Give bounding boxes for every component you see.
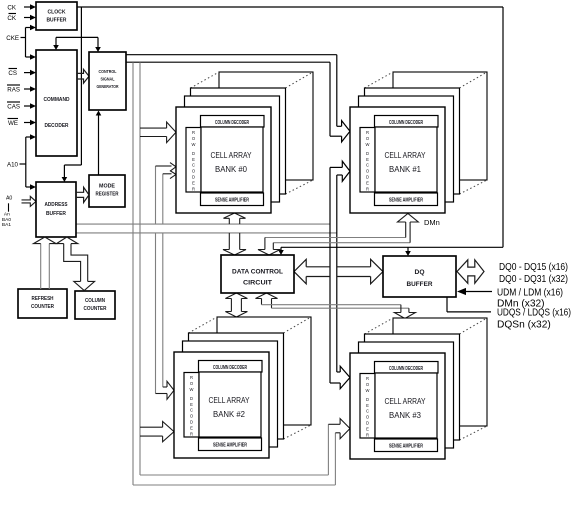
svg-text:COLUMN DECODER: COLUMN DECODER [213,365,247,371]
svg-text:DATA CONTROL: DATA CONTROL [232,269,283,276]
svg-text:CELL ARRAY: CELL ARRAY [385,397,427,406]
svg-text:D: D [366,421,369,426]
svg-text:REFRESH: REFRESH [32,296,54,302]
svg-text:D: D [366,397,369,402]
svg-text:SENSE AMPLIFIER: SENSE AMPLIFIER [389,198,423,204]
svg-text:DQ: DQ [415,269,425,276]
svg-text:E: E [366,426,369,431]
bus arrow up into bank1 bottom (DMn) [405,222,407,238]
svg-text:CK: CK [7,5,16,12]
svg-text:A10: A10 [7,162,19,169]
svg-text:CONTROL: CONTROL [99,69,117,74]
svg-text:W: W [366,142,370,147]
column decoder (bank 3) [375,362,439,374]
bus: DCC bottom to bank3 top [261,299,263,305]
command decoder [36,50,77,156]
svg-text:SENSE AMPLIFIER: SENSE AMPLIFIER [215,198,249,204]
bus: pair down to bank2 upper row arrow [155,233,157,394]
svg-text:SENSE AMPLIFIER: SENSE AMPLIFIER [389,444,423,450]
wire: CSG control line upper (to bank1 row arrows) [126,54,337,56]
hollow arrow address buffer to mode register [76,187,89,202]
svg-text:D: D [366,175,369,180]
svg-text:E: E [190,425,193,430]
wire: clock branch down between command decoder and CSG [80,7,82,165]
bus: data bus from central pair right into DQ buffer [337,266,371,268]
svg-text:E: E [192,180,195,185]
row decoder (bank 3) [360,374,375,439]
bus: address bus from address buffer [76,223,330,225]
svg-text:W: W [190,387,194,392]
svg-text:R: R [366,376,369,381]
svg-text:R: R [190,375,193,380]
wire: column select lines up into bank0 (thin arrows) [155,166,157,224]
svg-text:BUFFER: BUFFER [47,18,67,24]
svg-text:ADDRESS: ADDRESS [45,202,68,208]
cell array bank #3 stacked planes [393,318,487,426]
cell array box (bank 1) [375,127,437,192]
svg-text:E: E [192,157,195,162]
column decoder (bank 2) [199,361,263,373]
svg-text:W: W [366,388,370,393]
svg-text:C: C [192,163,195,168]
bus: central vertical pair upper segment (CSG to bank1) [336,55,338,127]
sense amplifier (bank 2) [199,438,262,451]
bus arrow into bank3 row decoder upper [337,371,340,373]
cell array box (bank 2) [199,372,261,437]
svg-text:REGISTER: REGISTER [96,192,119,198]
svg-text:E: E [366,180,369,185]
column counter [75,291,115,319]
svg-text:E: E [190,402,193,407]
svg-text:MODE: MODE [99,184,115,190]
svg-text:BANK #1: BANK #1 [389,165,421,174]
bus: bank0 sense amp to address-bus (up arrow into bank0 bottom) [228,218,230,224]
svg-text:R: R [192,186,195,191]
svg-text:WE: WE [8,120,18,127]
bus arrow into bank1 row decoder lower [330,166,342,168]
cell array bank #2 stacked planes [217,317,311,425]
svg-text:BANK #3: BANK #3 [389,411,421,420]
svg-text:CKE: CKE [6,35,19,42]
svg-text:CK: CK [7,15,16,22]
wire: internal clock net from clock buffer [77,6,503,8]
bus arrow into bank0 row decoder [140,127,167,129]
zigzag double arrow address buffer to column counter [64,244,81,282]
svg-text:COUNTER: COUNTER [84,306,107,312]
row decoder (bank 0) [186,128,201,193]
svg-text:C: C [190,408,193,413]
refresh counter [18,289,67,318]
svg-text:R: R [192,130,195,135]
cell array box (bank 3) [375,373,437,438]
wire: clock branch into address buffer [64,164,81,166]
sense amplifier (bank 3) [375,439,438,452]
svg-text:CIRCUIT: CIRCUIT [243,280,272,287]
svg-text:C: C [366,163,369,168]
svg-text:COUNTER: COUNTER [31,304,54,310]
row decoder (bank 1) [360,128,375,193]
bus: down arrow into data control circuit (from address bus) [228,233,230,250]
svg-text:BUFFER: BUFFER [407,281,433,288]
mode register [89,175,125,207]
sense amplifier (bank 1) [375,193,438,206]
wire: DQS line from DQ buffer bottom [446,297,448,312]
wire: clock drop into data control circuit [280,247,282,250]
cell array bank #1 stacked planes [393,72,487,180]
bus: DMn write bus between DCC and bank1 bottom [265,237,406,239]
wire: mode register to control signal generator [98,115,100,175]
bus: DCC bottom to bank2 top (double headed) [230,299,232,312]
svg-text:BANK #0: BANK #0 [215,165,248,174]
svg-text:An: An [4,212,10,218]
svg-text:R: R [366,432,369,437]
data control circuit [221,255,294,293]
cell array box (bank 0) [201,127,263,192]
sense amplifier (bank 0) [201,193,264,206]
svg-text:BA0: BA0 [2,217,11,223]
wire: UDM/LDM input into DQ buffer [466,291,492,293]
svg-text:COLUMN DECODER: COLUMN DECODER [215,120,249,126]
bus: data bus from central pair left into data control circuit [306,266,330,268]
svg-text:CAS: CAS [7,104,20,111]
svg-text:CS: CS [8,70,17,77]
svg-text:D: D [190,396,193,401]
bus: DQ bidirectional arrow at DQ buffer right [457,260,484,284]
bus: central vertical pair main segment [329,167,331,383]
column decoder (bank 0) [201,116,265,128]
svg-text:R: R [366,186,369,191]
bus: ring risers into bank3 lower-left arrow [327,424,329,475]
bus: left vertical pair (row address) from CSG line to bottom ring [132,62,134,485]
address buffer [36,182,76,237]
svg-text:COMMAND: COMMAND [44,97,70,103]
svg-text:R: R [366,130,369,135]
svg-text:CELL ARRAY: CELL ARRAY [209,396,251,405]
svg-text:W: W [192,142,196,147]
svg-text:UDM / LDM (x16): UDM / LDM (x16) [497,288,563,299]
cell array bank #0 stacked planes [219,72,313,180]
svg-text:RAS: RAS [7,87,20,94]
bus: bottom ring horizontal [140,474,328,476]
svg-text:CLOCK: CLOCK [48,10,66,16]
svg-text:SENSE AMPLIFIER: SENSE AMPLIFIER [213,443,247,449]
hollow arrow command decoder to CSG [77,69,89,83]
svg-text:BA1: BA1 [2,222,11,228]
svg-text:UDQS / LDQS (x16): UDQS / LDQS (x16) [497,308,571,319]
svg-text:C: C [366,409,369,414]
DQ buffer [383,256,456,297]
svg-text:DQ0 - DQ31 (x32): DQ0 - DQ31 (x32) [499,274,568,285]
svg-text:E: E [366,157,369,162]
svg-text:BANK #2: BANK #2 [213,410,245,419]
svg-text:GENERATOR: GENERATOR [97,84,119,89]
svg-text:DQSn (x32): DQSn (x32) [497,320,551,331]
wire: CSG control line lower [126,61,330,63]
svg-text:D: D [192,175,195,180]
svg-text:A0: A0 [6,196,12,202]
svg-text:DQ0 - DQ15 (x16): DQ0 - DQ15 (x16) [499,262,568,273]
svg-text:DMn: DMn [424,218,440,227]
bus arrow into bank2 row decoder (lower tap) [140,426,163,428]
svg-text:CELL ARRAY: CELL ARRAY [385,151,427,160]
svg-text:SIGNAL: SIGNAL [101,77,115,82]
svg-text:R: R [190,431,193,436]
svg-text:COLUMN DECODER: COLUMN DECODER [389,366,423,372]
svg-text:D: D [366,151,369,156]
svg-text:BUFFER: BUFFER [46,211,66,217]
svg-text:CELL ARRAY: CELL ARRAY [211,151,253,160]
svg-text:E: E [366,403,369,408]
bus arrow into bank1 row decoder upper [337,125,342,127]
row decoder (bank 2) [184,373,199,438]
svg-text:COLUMN: COLUMN [85,298,105,304]
hollow arrow refresh counter to address buffer [40,244,42,289]
svg-text:D: D [192,151,195,156]
wire: clock drop into DQ buffer [407,247,409,251]
column decoder (bank 1) [375,116,439,128]
control signal generator [89,52,126,110]
svg-text:D: D [190,420,193,425]
svg-text:COLUMN DECODER: COLUMN DECODER [389,120,423,126]
hollow arrow A0 into address buffer [22,196,37,206]
clock buffer [36,2,77,30]
svg-text:DECODER: DECODER [45,123,69,129]
